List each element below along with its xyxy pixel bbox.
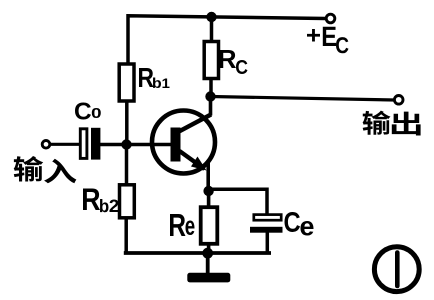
wire: output line to output terminal [211,97,395,101]
capacitor Ce top plate (hollow) [254,215,281,221]
ground stub wire [206,253,210,274]
terminal: input open circle [42,141,50,149]
wire: Re bottom to ground rail [207,243,211,254]
capacitor C0 right plate (solid) [91,128,100,160]
node: junction dot on top rail (Rc tap) [206,12,216,22]
wire: top rail from Rb1 top corner to +Ec terminal [128,16,326,63]
terminal: output open circle [394,96,403,105]
node: base junction dot [121,139,131,149]
wire: top rail to Rc [210,16,214,44]
transistor Q1 emitter lead with arrow [180,151,207,171]
wire: Rb1 bottom to base node [125,100,129,146]
wire: emitter node to Re [207,191,211,208]
label Rc [219,50,247,74]
wire: Ce bottom plate to ground rail [266,232,270,255]
node: bottom rail junction dot [202,248,213,259]
capacitor C0 left plate (hollow) [80,129,87,159]
label Re [170,214,194,236]
label output 出 (of 输出) [392,112,421,136]
wire: emitter node to Ce branch (top + right vertical) [209,189,267,215]
figure number circle (1) [374,247,419,292]
resistor Rb1 body [119,64,134,101]
wire: base wire from C0/node to base bar [99,143,171,147]
wire: base node down to Rb2 [125,144,129,186]
transistor Q1 envelope circle [152,111,215,174]
label input 入 (of 输入) [44,159,76,184]
resistor Re body [201,207,218,244]
label C0 [75,103,101,120]
label Rb1 [139,68,169,88]
label Ce [285,212,314,236]
wire: Rb2 bottom to ground rail [124,217,128,255]
resistor Rb2 body [120,185,135,218]
label output 输 (of 输出) [363,111,391,135]
wire: Rc bottom to collector node [209,78,213,98]
wire: emitter vertical to node [206,160,210,192]
wire: bottom ground rail [124,251,271,255]
label Rb2 [83,189,118,213]
figure number stroke "1" [395,253,400,287]
label +Ec [307,27,349,54]
transistor Q1 collector lead (diagonal) [177,115,211,133]
wire: collector vertical into transistor [209,97,213,116]
label input 输 (of 输入) [14,156,44,181]
ground symbol bar [187,273,230,283]
capacitor Ce bottom plate (solid) [250,227,283,233]
resistor Rc body [204,42,218,79]
node: emitter junction dot [203,186,213,196]
transistor Q1 base bar [171,128,181,162]
wire: input terminal to C0 [51,143,81,146]
node: collector/output junction dot [205,91,215,101]
terminal: +Ec open circle [326,14,335,23]
